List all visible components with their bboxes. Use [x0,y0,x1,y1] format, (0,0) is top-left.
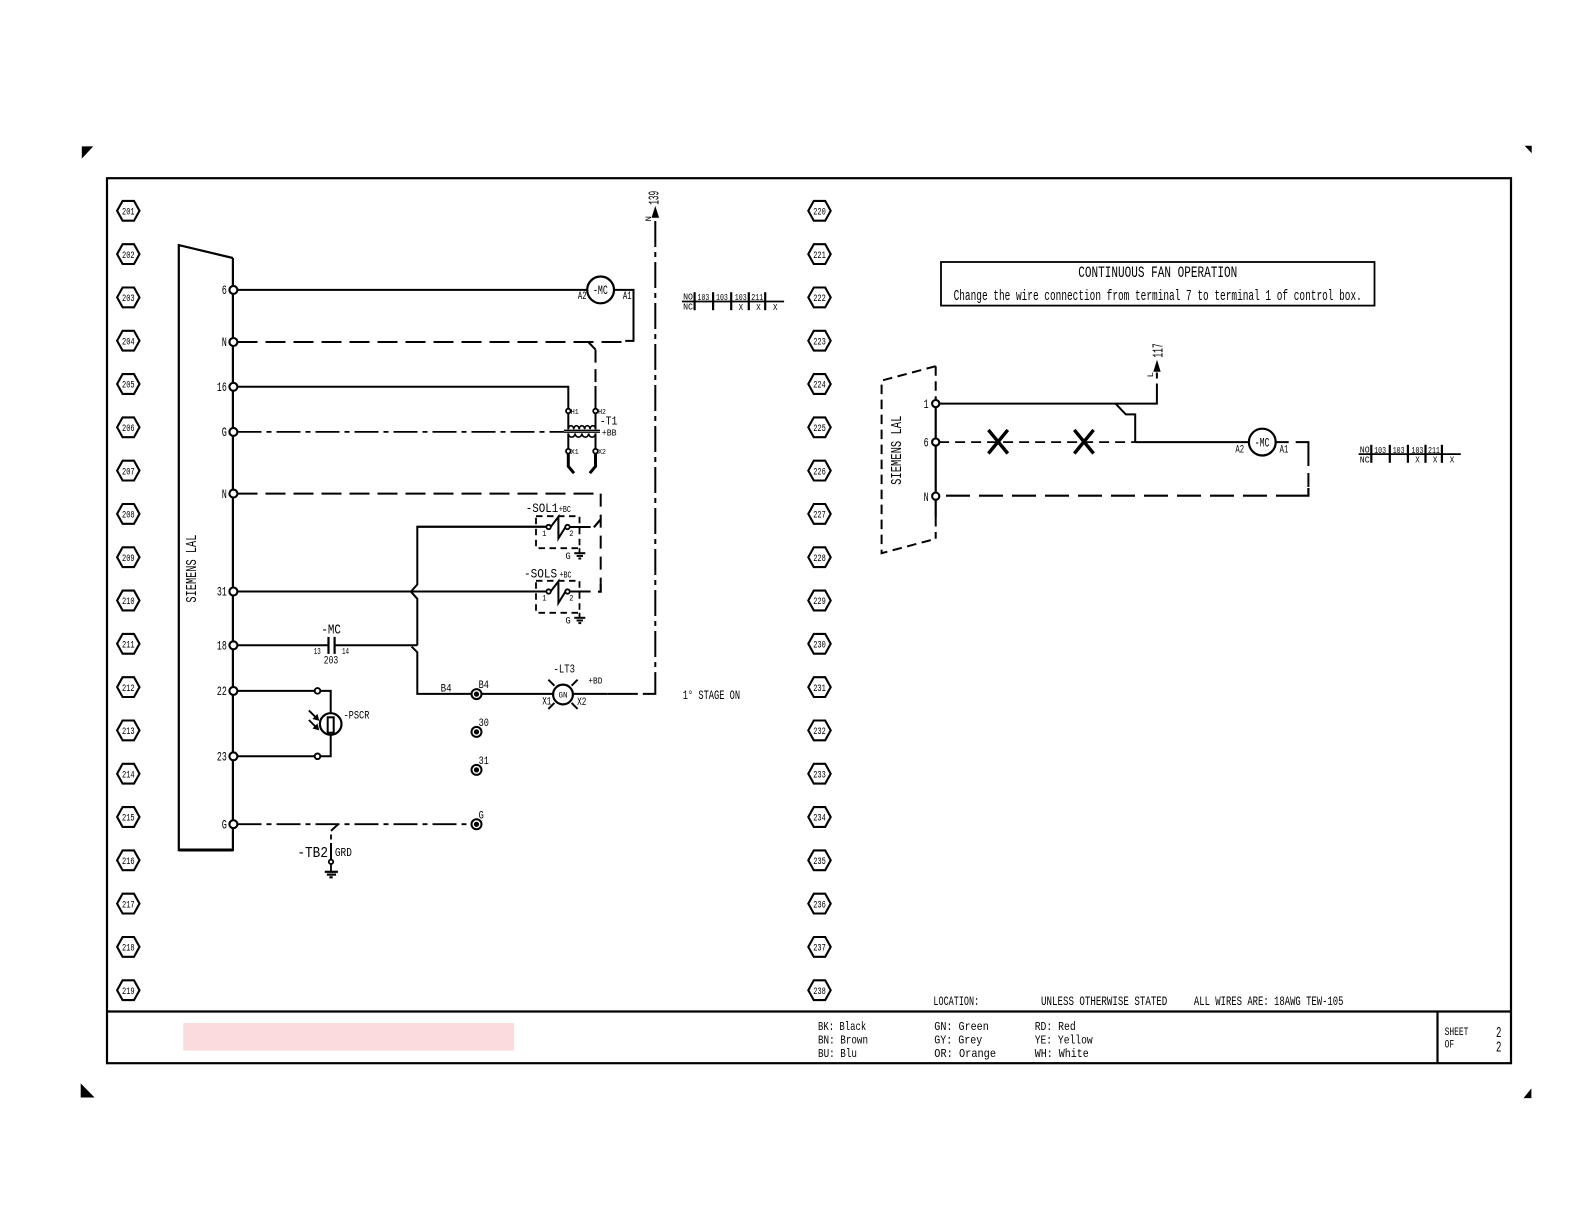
node 206 [117,417,139,437]
node 209 [117,547,139,567]
wire N return (dashed) from terminal N to MC drop [238,341,626,343]
svg-text:A2: A2 [1235,444,1244,456]
svg-text:B4: B4 [441,684,452,696]
svg-text:WH: White: WH: White [1035,1047,1089,1061]
svg-text:X1: X1 [542,697,551,709]
node 217 [117,894,139,914]
svg-text:L: L [1147,372,1156,378]
wire-removed X mark 1 [988,430,1007,454]
solenoid SOLS dashed enclosure [536,581,580,613]
wire-removed X mark 2 [1074,430,1093,454]
node 221 [808,244,830,264]
wire 6 solid segment to MC coil A2 [1135,441,1249,443]
terminal G (left block) pin circle [229,428,237,436]
svg-text:-SOLS: -SOLS [524,567,557,581]
svg-text:Change the wire connection fro: Change the wire connection from terminal… [954,288,1362,305]
node 229 [808,591,830,611]
svg-text:117: 117 [1152,343,1168,357]
svg-text:A2: A2 [578,291,587,303]
svg-text:CONTINUOUS FAN OPERATION: CONTINUOUS FAN OPERATION [1078,264,1237,282]
svg-text:237: 237 [813,944,826,955]
svg-text:6: 6 [222,284,227,298]
photocell light arrows [309,710,316,717]
terminal 6 (left block) pin circle [229,286,237,294]
svg-text:201: 201 [122,208,135,219]
svg-text:213: 213 [122,727,135,738]
svg-text:203: 203 [122,294,135,305]
svg-text:30: 30 [479,718,489,730]
svg-text:215: 215 [122,814,135,825]
X2 secondary lead hook [590,454,596,474]
svg-text:BK: Black: BK: Black [818,1020,866,1034]
solenoid return drop (dashed vertical) [600,494,602,584]
svg-text:X: X [1415,455,1420,466]
connector circle on wire 23 [315,754,321,760]
svg-text:6: 6 [924,436,929,451]
svg-text:-MC: -MC [321,622,341,638]
contactor coil MC (-MC) [587,277,614,304]
wire branch from N to transformer H2 (chamfer + dashed drop) [588,342,595,350]
svg-text:2: 2 [1496,1039,1501,1056]
transformer T1 pin X2 [593,449,598,454]
node 207 [117,461,139,481]
svg-text:216: 216 [122,857,135,868]
svg-text:210: 210 [122,597,135,608]
svg-text:ALL WIRES ARE: 18AWG TEW-105: ALL WIRES ARE: 18AWG TEW-105 [1194,994,1344,1009]
node 230 [808,634,830,654]
controller block U-left SIEMENS LAL outline [179,245,233,850]
svg-text:N: N [645,216,654,222]
svg-text:103: 103 [716,292,728,303]
svg-text:233: 233 [813,770,826,781]
svg-text:+BC: +BC [559,504,571,515]
node 227 [808,504,830,524]
svg-text:SIEMENS LAL: SIEMENS LAL [890,416,906,485]
solenoid SOL1 pin 2 [565,525,569,529]
node 222 [808,288,830,308]
svg-text:BN: Brown: BN: Brown [818,1034,868,1048]
node 225 [808,417,830,437]
svg-text:2: 2 [569,530,573,539]
node 233 [808,764,830,784]
svg-text:18: 18 [217,640,227,654]
wire from MC A1 down to N return [614,290,634,341]
svg-text:224: 224 [813,381,826,392]
wire 6 to MC coil A2 [238,289,588,291]
node 203 [117,288,139,308]
svg-text:203: 203 [324,655,338,667]
wire 1 to L riser [939,384,1157,404]
controller block right SIEMENS LAL dashed outline [882,366,936,553]
svg-text:X: X [773,302,778,313]
node 236 [808,894,830,914]
corner mark top-left [82,147,92,158]
svg-text:23: 23 [217,751,227,765]
transformer T1 pin H1 [566,409,571,414]
earth ground symbol TB2 [330,864,332,871]
svg-text:UNLESS OTHERWISE STATED: UNLESS OTHERWISE STATED [1041,994,1167,1009]
wire N return right (long dashed) [939,495,1300,497]
terminal 1 (right block) pin circle [932,400,939,407]
svg-text:G: G [222,818,227,832]
svg-text:1° STAGE ON: 1° STAGE ON [683,688,740,703]
node 204 [117,331,139,351]
svg-text:X: X [739,302,744,313]
node 219 [117,980,139,1000]
svg-text:OR: Orange: OR: Orange [934,1047,996,1061]
node 218 [117,937,139,957]
svg-text:H1: H1 [571,409,579,417]
svg-text:31: 31 [479,756,489,768]
svg-text:GY: Grey: GY: Grey [934,1034,982,1048]
terminal 31 (left block) pin circle [229,588,237,596]
svg-text:1: 1 [542,530,546,539]
node 224 [808,374,830,394]
wire-number arrow N 139 (off-sheet reference) [652,208,658,218]
wire 31 to SOLS [238,591,549,593]
svg-text:219: 219 [122,987,135,998]
node 211 [117,634,139,654]
svg-text:X: X [1433,455,1438,466]
wire MC A1 to N return (dashed elbow) [1276,441,1296,443]
svg-text:2: 2 [569,595,573,604]
connector circle on wire 22 [315,688,321,694]
X1 secondary lead hook [568,454,574,474]
off-sheet arrow L 117 [1156,372,1158,379]
svg-text:222: 222 [813,294,826,305]
svg-text:217: 217 [122,900,135,911]
solenoid SOLS pin 2 [565,589,569,593]
pilot lamp LT3 (GN) [553,685,573,705]
svg-text:-MC: -MC [1255,436,1270,451]
svg-text:220: 220 [813,208,826,219]
svg-text:RD: Red: RD: Red [1035,1020,1076,1034]
node 213 [117,721,139,741]
terminal G (left block) pin circle [229,820,237,828]
svg-text:G: G [566,616,571,628]
terminal N (left block) pin circle [229,490,237,498]
node 231 [808,677,830,697]
svg-text:OF: OF [1445,1040,1455,1052]
contactor coil MC right (-MC) [1249,429,1276,456]
terminal 18 (left block) pin circle [229,641,237,649]
photocell PSCR body [320,713,342,735]
solenoid SOL1 pin 1 [546,525,550,529]
transformer T1 pin H2 [593,409,598,414]
solenoid SOL1 coil bolt symbol [551,517,566,539]
svg-text:1: 1 [542,595,546,604]
svg-text:225: 225 [813,424,826,435]
svg-text:232: 232 [813,727,826,738]
svg-text:+BD: +BD [588,676,602,687]
svg-text:-PSCR: -PSCR [344,710,370,722]
svg-text:226: 226 [813,467,826,478]
svg-text:22: 22 [217,685,227,699]
svg-text:214: 214 [122,770,135,781]
svg-text:YE: Yellow: YE: Yellow [1035,1034,1094,1048]
svg-text:-MC: -MC [593,283,608,298]
solenoid SOLS coil bolt symbol [551,581,566,603]
svg-text:NC: NC [683,302,693,313]
wire bus riser joining SOL1, 31, 18 (with junction notches) [411,527,548,646]
svg-text:-SOL1: -SOL1 [526,502,559,516]
svg-text:N: N [924,490,929,505]
solenoid SOLS ground G [579,613,581,618]
redaction highlight box [183,1023,514,1051]
node 215 [117,807,139,827]
node 212 [117,677,139,697]
svg-text:228: 228 [813,554,826,565]
terminal N (right block) pin circle [932,493,939,500]
node 210 [117,591,139,611]
svg-text:221: 221 [813,251,826,262]
terminal 6 (right block) pin circle [932,439,939,446]
svg-text:207: 207 [122,467,135,478]
node 237 [808,937,830,957]
node 201 [117,201,139,221]
svg-text:X1: X1 [571,449,579,457]
solenoid SOLS pin 1 [546,589,550,593]
node 234 [808,807,830,827]
svg-text:X2: X2 [598,449,606,457]
svg-text:SHEET: SHEET [1445,1027,1469,1039]
svg-text:31: 31 [217,586,227,600]
svg-text:A1: A1 [623,291,632,303]
node 226 [808,461,830,481]
node 235 [808,850,830,870]
wire 1 chamfer branch down to 6 wire [1116,404,1136,443]
svg-text:231: 231 [813,684,826,695]
svg-text:229: 229 [813,597,826,608]
terminal 22 (left block) pin circle [229,687,237,695]
terminal stud 30 [472,727,482,737]
svg-text:BU: Blu: BU: Blu [818,1047,857,1061]
svg-text:G: G [222,426,227,440]
svg-text:227: 227 [813,511,826,522]
corner mark bottom-left [81,1085,93,1097]
svg-text:223: 223 [813,337,826,348]
wire 22 to photocell [238,690,316,692]
svg-text:16: 16 [217,381,227,395]
corner mark top-right [1526,146,1531,152]
TB2 ground tap chamfer and stem [331,824,338,831]
node 238 [808,980,830,1000]
corner mark bottom-right [1525,1090,1531,1098]
svg-text:205: 205 [122,381,135,392]
svg-text:GN: Green: GN: Green [934,1020,989,1034]
svg-text:103: 103 [1393,445,1405,456]
wire lamp X2 to N riser (dashed) [573,693,608,695]
wire SOL1 input [417,526,548,528]
note box CONTINUOUS FAN OPERATION [941,262,1375,306]
svg-text:218: 218 [122,944,135,955]
svg-text:103: 103 [698,292,710,303]
node 232 [808,721,830,741]
wire 18 junction notch continuing down to lamp wire [412,647,474,694]
transformer T1 primary winding [567,413,569,429]
terminal stud B4 [472,689,482,699]
svg-text:-LT3: -LT3 [554,662,576,676]
svg-text:212: 212 [122,684,135,695]
svg-text:+BB: +BB [602,427,617,438]
svg-text:206: 206 [122,424,135,435]
node 214 [117,764,139,784]
wire G to ground stud (dash-dot) [238,823,470,825]
svg-text:X2: X2 [577,697,586,709]
node 208 [117,504,139,524]
svg-text:139: 139 [647,191,663,205]
transformer T1 pin X1 [566,449,571,454]
title strip top line [107,1010,1511,1012]
solenoid SOL1 output wire [570,526,591,528]
solenoid SOLS output wire [570,591,591,593]
terminal 16 (left block) pin circle [229,383,237,391]
svg-text:234: 234 [813,814,826,825]
drawing border frame [107,178,1511,1063]
svg-text:NC: NC [1360,454,1370,465]
svg-text:235: 235 [813,857,826,868]
svg-text:204: 204 [122,337,135,348]
terminal stud G [472,819,482,829]
node 205 [117,374,139,394]
wire 16 to transformer H1 [238,387,569,409]
MC auxiliary contact 13-14 [327,637,329,654]
svg-text:G: G [479,811,484,823]
terminal stud 31 [472,765,482,775]
node 216 [117,850,139,870]
svg-text:+BC: +BC [560,569,572,580]
svg-text:103: 103 [1374,445,1386,456]
wire G to transformer shield (dash-dot) [238,431,564,433]
svg-text:SIEMENS LAL: SIEMENS LAL [185,535,201,603]
svg-text:208: 208 [122,511,135,522]
terminal 23 (left block) pin circle [229,752,237,760]
MC contact cross-reference table (left) [682,301,784,303]
svg-text:14: 14 [342,646,349,657]
MC contact cross-reference table (right) [1359,453,1461,455]
svg-text:A1: A1 [1280,444,1289,456]
terminal N (left block) pin circle [229,338,237,346]
solenoid SOL1 ground G [579,548,581,553]
svg-text:X: X [756,302,761,313]
svg-text:1: 1 [924,397,929,412]
title strip sheet-box divider [1436,1012,1438,1064]
solenoid SOL1 switch blade to return [594,520,601,528]
svg-text:-TB2: -TB2 [297,846,328,862]
svg-text:202: 202 [122,251,135,262]
wire 18 left of MC contact [238,644,329,646]
node 220 [808,201,830,221]
svg-text:X: X [1450,455,1455,466]
svg-text:236: 236 [813,900,826,911]
svg-text:LOCATION:: LOCATION: [933,994,979,1009]
svg-text:238: 238 [813,987,826,998]
node 202 [117,244,139,264]
solenoid SOL1 dashed enclosure [536,516,580,548]
svg-text:209: 209 [122,554,135,565]
transformer T1 core [564,429,600,431]
svg-text:GRD: GRD [335,846,352,860]
terminal TB2 GRD circle [329,860,333,864]
svg-text:G: G [566,551,571,563]
transformer T1 secondary winding [568,433,595,437]
node 228 [808,547,830,567]
svg-text:230: 230 [813,641,826,652]
wire 6 (dashed, disconnected) with X marks [939,441,1135,443]
svg-text:13: 13 [314,646,321,657]
photocell lower lead to wire 23 [320,734,331,756]
svg-text:GN: GN [559,691,568,700]
svg-text:B4: B4 [479,680,489,692]
wire N return for solenoids (dashed) [238,493,601,495]
svg-text:211: 211 [122,641,135,652]
wire B4 to lamp X1 [482,693,553,695]
node 223 [808,331,830,351]
svg-text:N: N [222,488,227,502]
svg-text:N: N [222,336,227,350]
